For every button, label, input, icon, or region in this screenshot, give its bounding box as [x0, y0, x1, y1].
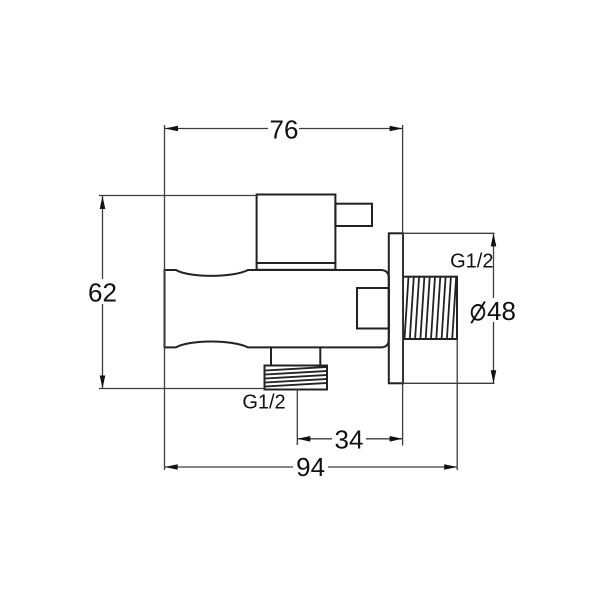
- svg-text:62: 62: [88, 278, 117, 308]
- arrow 62 bottom: [100, 376, 106, 389]
- svg-text:G1/2: G1/2: [242, 392, 285, 414]
- arrow 94 right: [444, 464, 457, 470]
- dimension 34 lines: [297, 438, 332, 440]
- svg-text:94: 94: [296, 452, 325, 482]
- arrow o48 top: [491, 233, 497, 246]
- side outlet connector: [335, 204, 372, 226]
- lower thread nut: [265, 366, 328, 390]
- arrow 76 left: [165, 126, 178, 132]
- arrow 94 left: [165, 464, 178, 470]
- svg-text:48: 48: [487, 296, 516, 326]
- holder body: [165, 270, 389, 347]
- extension line bottom of o48: [403, 382, 495, 384]
- threaded wall inlet: [403, 277, 457, 339]
- dimension 94 lines: [165, 466, 293, 468]
- extension line right of 94: [456, 339, 458, 470]
- wall flange: [389, 233, 403, 383]
- extension line top of o48: [403, 232, 495, 234]
- extension line bottom of 62: [99, 388, 266, 390]
- svg-text:76: 76: [270, 115, 299, 145]
- handle knob: [257, 195, 336, 270]
- dimension 76 lines: [165, 128, 268, 130]
- arrow 62 top: [100, 196, 106, 209]
- outlet boss: [357, 288, 389, 329]
- arrow 76 right: [390, 126, 403, 132]
- knob collar line: [257, 262, 336, 264]
- thread hatch lines (lower nut): [265, 367, 328, 387]
- svg-text:34: 34: [335, 425, 364, 455]
- extension line left of 34 (outlet centerline): [296, 390, 298, 446]
- thread hatch lines (wall inlet): [405, 277, 457, 339]
- extension line top of 62: [99, 195, 258, 197]
- svg-text:G1/2: G1/2: [450, 251, 493, 273]
- dimension 62 lines: [102, 196, 104, 279]
- arrow 34 right: [390, 436, 403, 442]
- diameter symbol of o48: [472, 305, 485, 320]
- arrow o48 bottom: [491, 370, 497, 383]
- lower outlet stub: [270, 347, 272, 365]
- extension line right of 76 / flange face / 34: [402, 125, 404, 446]
- arrow 34 left: [297, 436, 310, 442]
- dimension o48 lines: [493, 233, 495, 298]
- extension line left (body edge / 76 / 94): [164, 125, 166, 470]
